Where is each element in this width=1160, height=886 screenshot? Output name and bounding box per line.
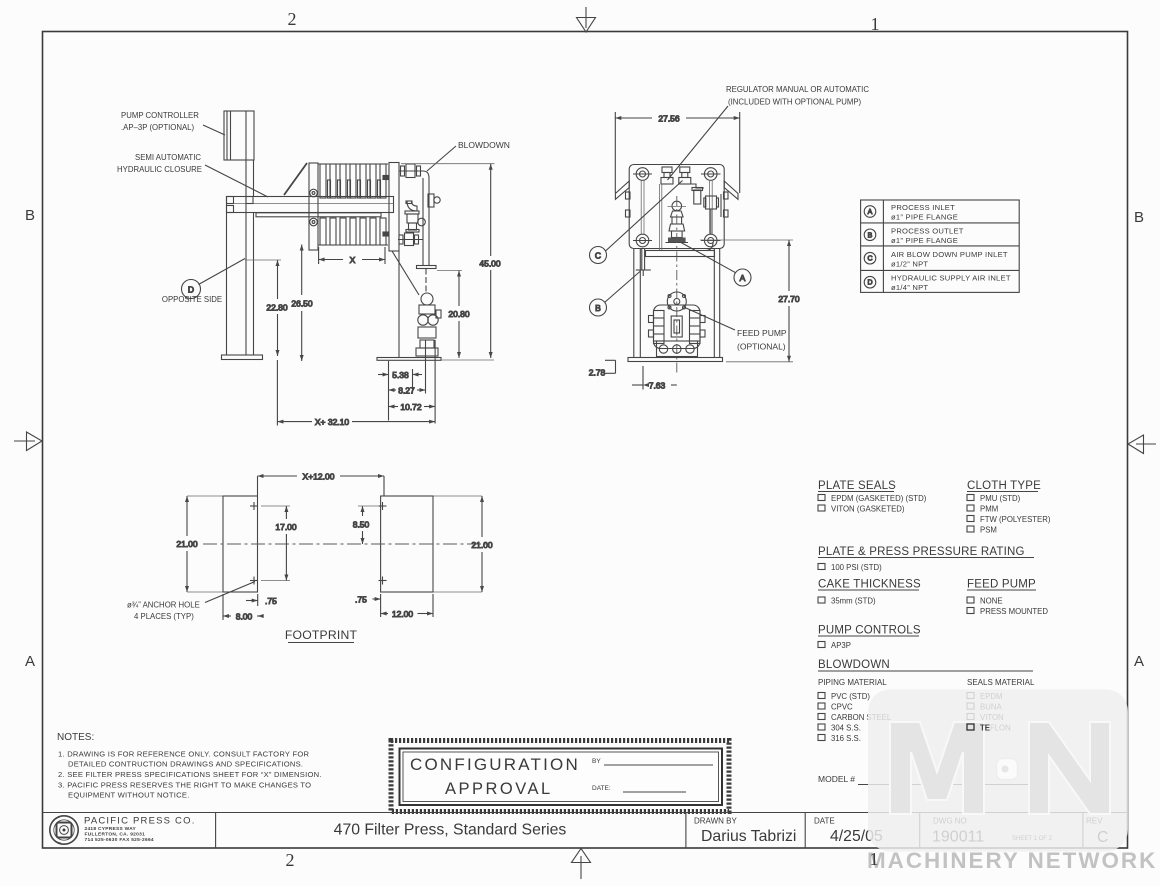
checkbox CARBON STEEL xyxy=(818,713,892,722)
checkbox FTW (POLYESTER) xyxy=(967,515,1051,524)
dimension X xyxy=(319,247,385,265)
svg-text:A: A xyxy=(868,209,873,216)
follower plate xyxy=(309,163,318,250)
side clamp left xyxy=(626,192,631,217)
svg-text:AIR BLOW DOWN PUMP INLET: AIR BLOW DOWN PUMP INLET xyxy=(891,250,1008,259)
svg-text:2.78: 2.78 xyxy=(589,368,606,378)
footprint centerline xyxy=(203,543,486,545)
svg-text:DATE: DATE xyxy=(814,817,835,826)
zone label A right xyxy=(1134,653,1144,670)
dimension 26.50 xyxy=(291,245,313,362)
checkbox 100 PSI (STD) xyxy=(818,563,882,572)
upper filter plate stack xyxy=(318,164,388,198)
svg-text:(OPTIONAL): (OPTIONAL) xyxy=(737,342,786,352)
dimension 12.00 xyxy=(381,594,433,619)
title block frame xyxy=(43,813,1128,849)
svg-text:ø¾” ANCHOR HOLE: ø¾” ANCHOR HOLE xyxy=(127,601,200,610)
dimension 2.78 xyxy=(589,360,616,377)
dimension 27.70 xyxy=(700,240,800,362)
zone label 1 bottom xyxy=(870,849,879,869)
rail under head xyxy=(646,243,715,257)
svg-text:ø1/2” NPT: ø1/2” NPT xyxy=(891,260,928,269)
dimension 21.00 left xyxy=(176,496,223,592)
corner bolt top-right xyxy=(701,168,721,181)
lower feed valve assembly xyxy=(398,233,423,246)
svg-text:OPPOSITE SIDE: OPPOSITE SIDE xyxy=(162,295,222,304)
svg-text:HYDRAULIC SUPPLY AIR INLET: HYDRAULIC SUPPLY AIR INLET xyxy=(891,274,1011,283)
floor base line right xyxy=(377,358,494,361)
drawn by cell xyxy=(694,817,796,846)
svg-text:21.00: 21.00 xyxy=(471,540,493,550)
svg-text:D: D xyxy=(867,280,872,287)
svg-text:FULLERTON, CA. 92031: FULLERTON, CA. 92031 xyxy=(85,832,146,838)
checkbox NONE xyxy=(967,597,1003,606)
checkbox VITON (GASKETED) xyxy=(818,505,905,514)
dimension 8.00 xyxy=(223,594,264,622)
balloon A xyxy=(681,243,751,287)
base plate front xyxy=(628,358,723,362)
zone label 2 bottom xyxy=(286,850,295,870)
svg-text:SEMI AUTOMATIC: SEMI AUTOMATIC xyxy=(135,153,201,162)
table balloon A xyxy=(864,206,876,218)
svg-text:1. DRAWING IS FOR REFERENC: 1. DRAWING IS FOR REFERENCE ONLY. CONSUL… xyxy=(58,750,309,759)
top fitting right xyxy=(679,167,691,184)
dimension X+12.00 xyxy=(258,472,385,497)
svg-text:DRAWN BY: DRAWN BY xyxy=(694,817,737,826)
pacific press logo stamp xyxy=(50,816,78,844)
svg-text:2: 2 xyxy=(286,850,295,870)
configuration approval stamp box xyxy=(391,741,729,812)
label FEED PUMP (OPTIONAL) xyxy=(686,308,787,352)
svg-text:DETAILED CONTRUCTION DRAWING: DETAILED CONTRUCTION DRAWINGS AND SPECIF… xyxy=(68,760,303,769)
center regulator xyxy=(666,201,689,242)
label BLOWDOWN xyxy=(427,140,510,171)
main beam (hydraulic closure bar) xyxy=(227,197,394,213)
watermark panel xyxy=(868,690,1128,852)
svg-text:VITON (GASKETED): VITON (GASKETED) xyxy=(831,505,905,514)
table balloon D xyxy=(864,276,876,288)
svg-text:CAKE THICKNESS: CAKE THICKNESS xyxy=(818,579,921,591)
blowdown valve assembly top xyxy=(399,164,429,178)
svg-text:TE: TE xyxy=(980,724,990,733)
rev cell xyxy=(1086,817,1108,847)
head plate front (rounded) xyxy=(629,165,724,249)
checkbox VITON seals xyxy=(967,713,1004,722)
heading BLOWDOWN xyxy=(818,659,1033,671)
svg-text:B: B xyxy=(595,303,601,313)
svg-text:17.00: 17.00 xyxy=(275,522,297,532)
svg-text:B: B xyxy=(25,207,35,224)
svg-text:MODEL #: MODEL # xyxy=(818,774,855,784)
svg-text:3. PACIFIC PRESS RESERVES: 3. PACIFIC PRESS RESERVES THE RIGHT TO M… xyxy=(58,781,311,790)
svg-text:.AP–3P (OPTIONAL): .AP–3P (OPTIONAL) xyxy=(121,123,194,132)
svg-text:SEALS MATERIAL: SEALS MATERIAL xyxy=(967,678,1035,687)
svg-text:X+ 32.10: X+ 32.10 xyxy=(315,417,350,427)
table row C text xyxy=(891,250,1008,269)
svg-text:5.38: 5.38 xyxy=(392,370,409,380)
heading CAKE THICKNESS xyxy=(818,579,921,591)
svg-text:22.80: 22.80 xyxy=(266,303,288,313)
dimension 10.72 xyxy=(389,340,436,424)
svg-text:35mm (STD): 35mm (STD) xyxy=(831,597,876,606)
checkbox EPDM seals xyxy=(967,692,1003,701)
note 2 xyxy=(58,770,322,779)
svg-text:NOTES:: NOTES: xyxy=(57,732,94,743)
svg-text:MACHINERY NETWORK: MACHINERY NETWORK xyxy=(867,848,1157,873)
head support leg xyxy=(392,251,419,358)
svg-text:PMU (STD): PMU (STD) xyxy=(980,494,1021,503)
checkbox EPDM (GASKETED) (STD) xyxy=(818,494,927,503)
footprint left pad xyxy=(223,496,258,592)
svg-text:EQUIPMENT WITHOUT NOTICE.: EQUIPMENT WITHOUT NOTICE. xyxy=(68,791,190,800)
svg-text:470 Filter Press, Standard Ser: 470 Filter Press, Standard Series xyxy=(334,822,567,839)
table balloon B xyxy=(864,229,876,241)
checkbox PVC (STD) xyxy=(818,692,870,701)
label OPPOSITE SIDE xyxy=(162,295,222,304)
checkbox AP3P xyxy=(818,641,851,650)
svg-text:714 525-0630 FAX 525-2664: 714 525-0630 FAX 525-2664 xyxy=(85,837,154,843)
corner bolt bottom-right xyxy=(701,234,721,247)
svg-text:B: B xyxy=(868,232,873,239)
svg-text:8.27: 8.27 xyxy=(398,386,415,396)
svg-text:PUMP CONTROLLER: PUMP CONTROLLER xyxy=(121,111,199,120)
svg-text:FEED PUMP: FEED PUMP xyxy=(737,328,787,338)
pump controller panel xyxy=(224,111,254,160)
title FOOTPRINT xyxy=(285,628,358,643)
svg-text:FEED PUMP: FEED PUMP xyxy=(967,579,1036,591)
svg-text:A: A xyxy=(740,273,746,283)
centerline front xyxy=(676,196,678,374)
checkbox 304 S.S. xyxy=(818,724,861,733)
stand body sides xyxy=(634,249,720,358)
svg-text:X+12.00: X+12.00 xyxy=(303,472,335,482)
svg-text:27.70: 27.70 xyxy=(778,294,800,304)
dimension .75 right xyxy=(355,594,381,617)
zone label 1 bottom xyxy=(0,0,1,1)
svg-text:304 S.S.: 304 S.S. xyxy=(831,724,861,733)
svg-text:CPVC: CPVC xyxy=(831,703,853,712)
pipe bottom flange xyxy=(417,266,437,269)
side clamp right xyxy=(721,192,728,217)
svg-text:4 PLACES (TYP): 4 PLACES (TYP) xyxy=(134,612,194,621)
model number line xyxy=(818,774,1048,785)
svg-text:ø1” PIPE FLANGE: ø1” PIPE FLANGE xyxy=(891,236,958,245)
svg-text:NONE: NONE xyxy=(980,597,1003,606)
note 3 xyxy=(58,781,311,800)
svg-text:PLATE & PRESS PRESSURE RAT: PLATE & PRESS PRESSURE RATING xyxy=(818,546,1025,558)
dimension 45.00 xyxy=(401,164,501,358)
watermark letter N xyxy=(1029,722,1110,814)
svg-text:PACIFIC PRESS CO.: PACIFIC PRESS CO. xyxy=(84,816,196,827)
svg-text:BLOWDOWN: BLOWDOWN xyxy=(818,659,890,671)
heading CLOTH TYPE xyxy=(967,480,1041,492)
watermark text MACHINERY NETWORK xyxy=(867,848,1157,873)
feed pump front view xyxy=(649,292,706,357)
svg-text:1: 1 xyxy=(870,849,879,869)
svg-text:10.72: 10.72 xyxy=(400,402,422,412)
checkbox PSM xyxy=(967,526,997,535)
center mark arrow right xyxy=(1128,435,1156,454)
lower side bar xyxy=(256,213,381,217)
checkbox PRESS MOUNTED xyxy=(967,607,1048,616)
svg-text:CLOTH TYPE: CLOTH TYPE xyxy=(967,480,1041,492)
label PIPING MATERIAL xyxy=(818,678,887,687)
svg-text:Darius Tabrizi: Darius Tabrizi xyxy=(701,828,796,845)
corner bolt bottom-left xyxy=(633,234,652,247)
svg-text:FOOTPRINT: FOOTPRINT xyxy=(285,628,358,642)
svg-text:PROCESS OUTLET: PROCESS OUTLET xyxy=(891,227,964,236)
svg-text:PVC (STD): PVC (STD) xyxy=(831,692,870,701)
tie rod extension with flange xyxy=(636,249,651,277)
dimension 22.80 xyxy=(245,260,288,356)
dimension 27.56 xyxy=(615,112,739,193)
left leg xyxy=(222,213,263,360)
teflon checkbox redrawn dark xyxy=(967,724,990,733)
svg-text:2: 2 xyxy=(288,9,297,29)
svg-text:316 S.S.: 316 S.S. xyxy=(831,734,861,743)
center mark arrow bottom xyxy=(572,849,591,880)
dimension 8.50 xyxy=(353,506,379,544)
svg-text:X: X xyxy=(350,255,356,265)
dimension 7.63 xyxy=(632,366,677,391)
zone label 2 top xyxy=(288,9,297,29)
corner bolt top-left xyxy=(633,168,652,181)
svg-text:100 PSI (STD): 100 PSI (STD) xyxy=(831,563,882,572)
note 1 xyxy=(58,750,309,769)
svg-text:REGULATOR MANUAL OR AUTOMATIC: REGULATOR MANUAL OR AUTOMATIC xyxy=(726,85,869,94)
heading PLATE SEALS xyxy=(818,480,896,492)
zone label B right xyxy=(1134,209,1144,226)
center mark arrow top xyxy=(577,7,596,32)
heading PUMP CONTROLS xyxy=(818,625,921,637)
svg-text:20.80: 20.80 xyxy=(448,309,470,319)
mid elbow and valve xyxy=(405,201,425,232)
svg-text:21.00: 21.00 xyxy=(176,539,198,549)
company name and address xyxy=(84,816,196,844)
dimension 21.00 right xyxy=(433,496,493,592)
balloon D xyxy=(182,259,246,299)
label PUMP CONTROLLER AP-3P (OPTIONAL) xyxy=(121,111,225,135)
checkbox TEFLON xyxy=(967,724,1011,733)
svg-text:PUMP CONTROLS: PUMP CONTROLS xyxy=(818,625,921,637)
top fitting left (inlet C stack) xyxy=(661,167,673,184)
svg-text:BY: BY xyxy=(592,758,601,765)
feed drop pipe xyxy=(659,184,661,250)
dimension 8.27 xyxy=(389,340,426,396)
svg-text:PRESS MOUNTED: PRESS MOUNTED xyxy=(980,607,1048,616)
drawing title xyxy=(334,822,567,839)
dimension 17.00 xyxy=(261,506,297,581)
watermark letter M xyxy=(890,722,984,814)
svg-text:PLATE SEALS: PLATE SEALS xyxy=(818,480,896,492)
svg-text:27.56: 27.56 xyxy=(658,114,680,124)
svg-text:B: B xyxy=(1134,209,1144,226)
anchor hole marks xyxy=(250,502,387,585)
heading NOTES xyxy=(57,732,94,743)
label anchor hole xyxy=(127,582,255,622)
svg-text:ø1” PIPE FLANGE: ø1” PIPE FLANGE xyxy=(891,213,958,222)
support column xyxy=(246,111,254,355)
checkbox PMM xyxy=(967,505,998,514)
checkbox PMU (STD) xyxy=(967,494,1021,503)
svg-text:AP3P: AP3P xyxy=(831,641,851,650)
table row D text xyxy=(891,274,1011,293)
watermark dot xyxy=(997,759,1018,780)
svg-text:PIPING MATERIAL: PIPING MATERIAL xyxy=(818,678,887,687)
dimension 20.80 xyxy=(437,271,470,359)
balloon C xyxy=(590,181,683,264)
svg-text:2418 CYPRESS WAY: 2418 CYPRESS WAY xyxy=(85,826,137,832)
svg-text:1: 1 xyxy=(871,14,880,34)
svg-text:ø1/4” NPT: ø1/4” NPT xyxy=(891,283,928,292)
balloon B xyxy=(590,271,641,316)
label REGULATOR MANUAL OR AUTOMATIC xyxy=(668,85,870,180)
label SEMI AUTOMATIC HYDRAULIC CLOSURE xyxy=(117,153,268,197)
label SEALS MATERIAL xyxy=(967,678,1035,687)
svg-text:A: A xyxy=(1134,653,1144,670)
svg-text:A: A xyxy=(25,653,35,670)
svg-text:PROCESS INLET: PROCESS INLET xyxy=(891,203,955,212)
fixed head plate xyxy=(383,163,399,252)
footprint right pad xyxy=(381,496,433,592)
svg-text:8.50: 8.50 xyxy=(353,520,370,530)
lower filter plate stack xyxy=(318,218,388,245)
connection table frame xyxy=(861,200,1020,292)
heading FEED PUMP xyxy=(967,579,1036,591)
dwg no cell xyxy=(932,817,1053,846)
feed pump side view xyxy=(416,269,441,357)
svg-text:.75: .75 xyxy=(355,595,367,605)
svg-text:PSM: PSM xyxy=(980,526,997,535)
left wing bracket xyxy=(615,181,629,199)
center mark arrow left xyxy=(14,432,42,451)
svg-text:.75: .75 xyxy=(265,596,277,606)
svg-text:APPROVAL: APPROVAL xyxy=(445,780,553,798)
dimension X+ 32.10 xyxy=(277,360,435,427)
svg-text:BLOWDOWN: BLOWDOWN xyxy=(458,140,510,150)
zone label 1 top xyxy=(871,14,880,34)
svg-text:EPDM (GASKETED) (STD): EPDM (GASKETED) (STD) xyxy=(831,494,927,503)
svg-text:CONFIGURATION: CONFIGURATION xyxy=(410,755,580,774)
heading PLATE & PRESS PRESSURE RATING xyxy=(818,546,1034,558)
svg-text:C: C xyxy=(867,256,872,263)
zone label B left xyxy=(25,207,35,224)
table row B text xyxy=(891,227,964,246)
diagonal closure handle xyxy=(284,163,307,195)
svg-text:HYDRAULIC CLOSURE: HYDRAULIC CLOSURE xyxy=(117,165,202,174)
svg-text:D: D xyxy=(188,285,194,295)
vertical discharge pipe xyxy=(423,178,429,266)
svg-text:DATE:: DATE: xyxy=(592,785,611,792)
checkbox CPVC xyxy=(818,703,853,712)
checkbox 316 S.S. xyxy=(818,734,861,743)
svg-text:12.00: 12.00 xyxy=(392,609,414,619)
svg-text:8.00: 8.00 xyxy=(236,612,253,622)
svg-text:45.00: 45.00 xyxy=(479,259,501,269)
checkbox BUNA xyxy=(967,703,1002,712)
date cell xyxy=(814,817,883,846)
zone label A left xyxy=(25,653,35,670)
table row A text xyxy=(891,203,958,222)
svg-text:2. SEE FILTER PRESS SPECIF: 2. SEE FILTER PRESS SPECIFICATIONS SHEET… xyxy=(58,770,322,779)
air piping right xyxy=(690,184,719,234)
right gauge fitting xyxy=(428,194,440,207)
table balloon C xyxy=(864,252,876,264)
checkbox 35mm (STD) xyxy=(818,597,876,606)
dimension 5.38 xyxy=(378,361,422,421)
svg-text:(INCLUDED WITH OPTIONAL PUMP): (INCLUDED WITH OPTIONAL PUMP) xyxy=(728,98,862,107)
tie rod left xyxy=(641,180,644,235)
svg-text:PMM: PMM xyxy=(980,505,998,514)
svg-text:C: C xyxy=(595,251,601,261)
svg-text:FTW (POLYESTER): FTW (POLYESTER) xyxy=(980,515,1051,524)
dimension .75 left xyxy=(246,594,277,606)
svg-text:7.63: 7.63 xyxy=(649,381,666,391)
svg-text:26.50: 26.50 xyxy=(291,299,313,309)
right wing bracket xyxy=(724,181,738,199)
tie rod right xyxy=(709,180,712,235)
